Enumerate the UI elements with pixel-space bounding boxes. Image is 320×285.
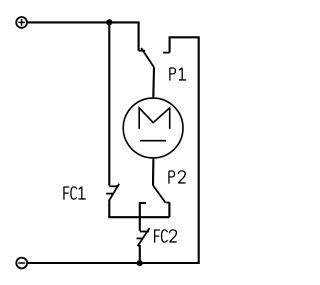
battery + terminal [16, 17, 27, 28]
wire left vertical [108, 22, 110, 185]
wire bottom rail [28, 262, 200, 264]
motor M [123, 98, 183, 158]
battery - terminal [16, 258, 27, 269]
label FC1 [63, 187, 85, 200]
label FC2 [154, 230, 177, 243]
node junction top [106, 19, 112, 25]
wire FC2 to bottom rail [139, 245, 141, 263]
wire FC1 to middle rail [108, 200, 110, 217]
pushbutton P2 [140, 185, 170, 231]
limit switch FC1 [106, 184, 119, 202]
node junction bottom [137, 260, 143, 266]
wire top rail [28, 21, 140, 23]
pushbutton P1 [139, 22, 200, 67]
wire right border [198, 37, 200, 263]
label P1 [170, 68, 186, 81]
wire P1 to motor [152, 67, 155, 98]
wire motor to P2 [152, 158, 154, 186]
wire middle horizontal [108, 216, 169, 218]
label P2 [169, 171, 186, 184]
limit switch FC2 [137, 228, 150, 246]
